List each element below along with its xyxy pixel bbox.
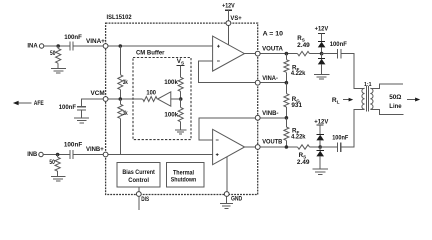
wire cap to ground (VCM) bbox=[81, 110, 83, 118]
svg-text:4.22k: 4.22k bbox=[291, 134, 306, 141]
pin VS+ bbox=[226, 21, 231, 26]
amp B - sign bbox=[216, 139, 219, 141]
wire node to D4 bbox=[319, 147, 321, 150]
wire VOUTB rail bbox=[258, 146, 298, 148]
block Thermal Shutdown bbox=[166, 163, 204, 188]
pin VINB+ bbox=[103, 152, 108, 157]
ground (INA 50) bbox=[51, 68, 66, 73]
pin VINA- bbox=[255, 80, 260, 85]
wire D2 to ground bbox=[321, 65, 323, 75]
ground (CM divider) bbox=[175, 130, 187, 134]
arrow RL into transformer bbox=[343, 98, 353, 102]
terminal INA bbox=[39, 44, 43, 48]
IC ISL15102 dashed outline bbox=[106, 23, 258, 194]
junction INA/50 bbox=[56, 44, 60, 48]
wire RS to clamp node bbox=[310, 53, 322, 55]
wire VCM to cap bbox=[82, 99, 106, 106]
ground (INB 50) bbox=[51, 176, 65, 181]
transformer T1 secondary winding bbox=[370, 88, 373, 109]
supply +12V rail (VS+) bbox=[225, 9, 232, 11]
wire secondary bottom to line bbox=[370, 109, 403, 114]
resistor 3k lower bbox=[118, 99, 123, 155]
block Bias Current Control bbox=[117, 163, 160, 188]
wire cap to transformer (bottom) bbox=[341, 109, 365, 147]
svg-text:INA: INA bbox=[27, 43, 37, 50]
svg-text:2.49: 2.49 bbox=[297, 159, 310, 166]
terminal INB bbox=[39, 152, 43, 156]
wire INA to cap bbox=[44, 45, 70, 47]
svg-text:50: 50 bbox=[50, 51, 56, 57]
wire VS+ into amp A bbox=[227, 23, 229, 45]
resistor 100 (CM) bbox=[143, 97, 158, 102]
svg-text:VINA-: VINA- bbox=[262, 75, 278, 82]
wire VINA- rail bbox=[258, 82, 287, 84]
pin VOUTB bbox=[255, 145, 260, 150]
svg-text:VINB+: VINB+ bbox=[86, 146, 104, 153]
junction VOUTA/RF bbox=[285, 52, 289, 56]
ground (bottom clamp) bbox=[312, 169, 328, 174]
svg-text:ISL15102: ISL15102 bbox=[107, 14, 132, 21]
svg-text:CM Buffer: CM Buffer bbox=[136, 50, 165, 57]
capacitor 100nF (INA) bbox=[70, 42, 73, 51]
svg-text:DIS: DIS bbox=[141, 196, 149, 203]
svg-text:AFE: AFE bbox=[34, 100, 44, 107]
svg-text:100nF: 100nF bbox=[64, 142, 82, 149]
svg-text:VOUTA: VOUTA bbox=[262, 46, 283, 53]
svg-text:3k: 3k bbox=[123, 110, 128, 117]
diode D4 (to ground) bbox=[316, 150, 324, 156]
wire VCM into CM buffer bbox=[106, 98, 143, 100]
junction VINA+/3k bbox=[119, 44, 123, 48]
svg-text:100k: 100k bbox=[164, 112, 178, 119]
capacitor 100nF (bottom coupling) bbox=[337, 143, 340, 152]
svg-text:50: 50 bbox=[49, 160, 55, 166]
op-amp A bbox=[213, 36, 245, 71]
pin GND bbox=[224, 192, 229, 197]
wire VINB+ to amp B +input bbox=[106, 154, 213, 156]
ground (VCM cap) bbox=[74, 118, 89, 123]
pin VINB- bbox=[255, 115, 260, 120]
ground (top clamp) bbox=[314, 75, 330, 80]
diode D1 (to +12V) bbox=[318, 41, 326, 47]
wire D1 to node bbox=[321, 48, 323, 54]
wire amp B feedback to VINB- bbox=[199, 118, 258, 140]
wire INB to cap bbox=[43, 154, 69, 156]
svg-text:100nF: 100nF bbox=[330, 41, 347, 48]
svg-text:Thermal: Thermal bbox=[173, 169, 194, 176]
pin VINA+ bbox=[103, 44, 108, 49]
transformer T1 core bbox=[367, 86, 369, 111]
svg-text:2.49: 2.49 bbox=[297, 42, 310, 49]
resistor RS lower bbox=[298, 145, 310, 149]
wire cap to VINB+ bbox=[73, 154, 106, 156]
svg-text:+12V: +12V bbox=[222, 3, 235, 10]
wire amp B to GND pin bbox=[226, 157, 228, 194]
op-amp B bbox=[213, 129, 245, 164]
svg-text:VOUTB: VOUTB bbox=[262, 138, 282, 145]
op-amp CM buffer (unity) bbox=[158, 92, 171, 106]
junction VINB-/RF bbox=[285, 116, 289, 120]
arrow to AFE bbox=[13, 101, 32, 105]
wire node to D2 bbox=[321, 54, 323, 59]
diode D2 (to ground) bbox=[318, 58, 326, 64]
junction VINA-/RG bbox=[285, 81, 289, 85]
resistor RF upper bbox=[284, 54, 289, 83]
arrow to line out bbox=[407, 98, 420, 102]
wire cap to VINA+ bbox=[73, 45, 106, 47]
resistor 100k upper bbox=[178, 65, 183, 99]
wire amp B output to VOUTB bbox=[245, 146, 258, 148]
pin VOUTA bbox=[255, 51, 260, 56]
svg-text:100: 100 bbox=[146, 90, 156, 97]
resistor RG bbox=[284, 83, 289, 118]
diode D3 (to +12V) bbox=[316, 134, 324, 140]
amp A - sign bbox=[217, 60, 220, 62]
resistor RS upper bbox=[298, 51, 310, 55]
wire Bias block to DIS pin bbox=[138, 187, 140, 194]
svg-text:Shutdown: Shutdown bbox=[171, 177, 197, 184]
svg-text:VCM: VCM bbox=[91, 90, 106, 97]
svg-text:100nF: 100nF bbox=[64, 34, 82, 41]
wire +12V to D3 bbox=[319, 125, 321, 135]
transformer T1 primary winding bbox=[362, 88, 365, 109]
svg-text:931: 931 bbox=[291, 102, 302, 109]
wire amp A output to VOUTA bbox=[244, 53, 257, 55]
wire node to coupling cap (bottom) bbox=[320, 146, 337, 148]
svg-text:VINB-: VINB- bbox=[262, 110, 278, 117]
svg-text:100nF: 100nF bbox=[332, 135, 348, 142]
resistor 50 (INA term) bbox=[56, 46, 61, 68]
wire GND pin to ground bbox=[226, 196, 228, 203]
wire VINB- rail bbox=[258, 117, 287, 119]
svg-text:4.22k: 4.22k bbox=[291, 70, 306, 77]
pin VCM bbox=[103, 97, 108, 102]
svg-text:VINA+: VINA+ bbox=[86, 38, 105, 45]
supply +12V rail (top clamp) bbox=[318, 33, 325, 35]
capacitor 100nF (top coupling) bbox=[338, 49, 341, 58]
svg-text:50Ω: 50Ω bbox=[389, 94, 401, 101]
wire secondary top to line bbox=[370, 84, 403, 88]
svg-text:Line: Line bbox=[389, 103, 402, 110]
wire node to coupling cap (top) bbox=[322, 53, 338, 55]
svg-text:3k: 3k bbox=[123, 79, 128, 86]
resistor 100k lower bbox=[178, 99, 183, 130]
svg-text:GND: GND bbox=[231, 196, 243, 203]
svg-text:1:1: 1:1 bbox=[364, 82, 372, 88]
capacitor 100nF (VCM) bbox=[77, 107, 86, 110]
svg-text:VS+: VS+ bbox=[230, 15, 241, 22]
wire +12V to D1 bbox=[321, 34, 323, 42]
svg-text:+12V: +12V bbox=[315, 26, 329, 33]
ground (GND pin) bbox=[220, 203, 233, 208]
svg-text:100k: 100k bbox=[164, 79, 178, 86]
node CM divider bbox=[179, 97, 183, 101]
wire cap to transformer (top) bbox=[341, 54, 365, 89]
svg-text:Control: Control bbox=[128, 177, 149, 184]
svg-text:A = 10: A = 10 bbox=[263, 30, 284, 37]
junction VOUTB/RF bbox=[285, 145, 289, 149]
junction clamp bottom bbox=[318, 145, 322, 149]
svg-text:Bias Current: Bias Current bbox=[122, 169, 155, 176]
junction clamp top bbox=[320, 52, 324, 56]
svg-text:INB: INB bbox=[27, 151, 37, 158]
amp B + sign bbox=[216, 153, 219, 156]
supply +12V rail (bottom clamp) bbox=[317, 124, 324, 126]
wire DIS stub bbox=[138, 196, 140, 210]
capacitor 100nF (INB) bbox=[70, 150, 73, 159]
resistor 50 (INB term) bbox=[55, 155, 60, 177]
svg-text:100nF: 100nF bbox=[59, 104, 76, 111]
wire D4 to ground bbox=[319, 157, 321, 170]
amp A + sign bbox=[217, 45, 220, 48]
wire VOUTA rail bbox=[258, 53, 298, 55]
wire VINA+ to amp A +input bbox=[106, 45, 213, 47]
wire D3 to node bbox=[319, 141, 321, 147]
wire +12V to VS+ pin bbox=[227, 10, 229, 23]
wire divider to buffer input bbox=[171, 98, 181, 100]
wire RS lower to clamp node bbox=[310, 146, 321, 148]
supply Vs tap bbox=[177, 64, 185, 66]
pin DIS bbox=[136, 192, 141, 197]
CM buffer dashed box bbox=[133, 58, 191, 140]
resistor RF lower bbox=[284, 118, 289, 147]
junction VCM node bbox=[119, 97, 123, 101]
wire amp A feedback to VINA- bbox=[199, 61, 258, 83]
resistor 3k upper bbox=[118, 46, 123, 99]
junction INB/50 bbox=[56, 153, 60, 157]
